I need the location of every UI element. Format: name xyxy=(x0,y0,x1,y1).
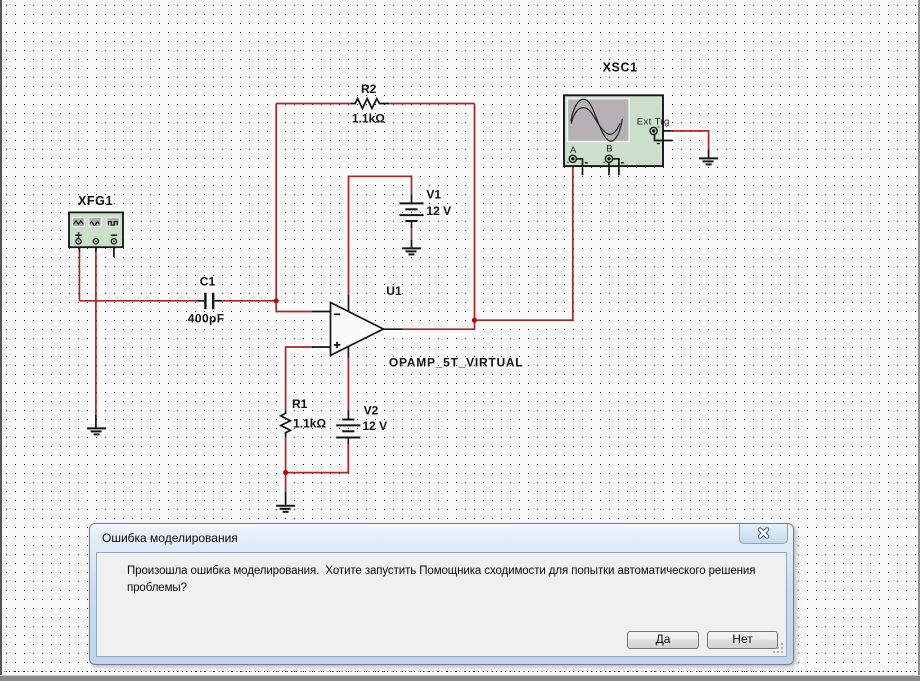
svg-text:OPAMP_5T_VIRTUAL: OPAMP_5T_VIRTUAL xyxy=(389,356,523,370)
wire R2 right segment xyxy=(389,103,475,105)
button Нет xyxy=(707,631,778,649)
label V1 value 12 V xyxy=(426,204,451,218)
ground (below V1) xyxy=(402,248,421,254)
label V2 xyxy=(364,403,379,417)
svg-text:R2: R2 xyxy=(361,82,377,96)
close button xyxy=(739,523,788,544)
label R1 xyxy=(292,397,308,411)
wire op-amp noninverting input to R1 top xyxy=(286,347,312,411)
dialog title xyxy=(102,531,238,545)
simulation error dialog xyxy=(89,523,794,665)
wire R2 right riser down to node B xyxy=(474,104,476,321)
wire R1 bottom to node C xyxy=(285,434,287,473)
svg-text:400pF: 400pF xyxy=(188,312,225,326)
capacitor C1 xyxy=(198,293,222,309)
label R2 value 1.1k ohm xyxy=(352,111,385,125)
label Ext Trg xyxy=(637,116,670,127)
dialog message text xyxy=(127,563,787,597)
svg-text:V1: V1 xyxy=(426,188,441,202)
label XSC1 xyxy=(603,61,638,75)
svg-text:1.1kΩ: 1.1kΩ xyxy=(352,111,385,125)
node A (junction at C1/R2 riser) xyxy=(274,298,279,303)
wire V1 negative to ground xyxy=(411,221,413,248)
svg-text:R1: R1 xyxy=(292,397,308,411)
battery V1 xyxy=(399,203,423,221)
svg-text:V2: V2 xyxy=(364,403,379,417)
wire oscilloscope Ext Trg to ground xyxy=(657,131,708,159)
wire node B to oscilloscope channel A xyxy=(475,162,573,320)
ground (below XFG1) xyxy=(87,428,106,434)
label A xyxy=(570,145,577,156)
wire XFG1 to C1 (horizontal) xyxy=(79,300,197,302)
svg-text:XSC1: XSC1 xyxy=(603,61,638,75)
wire junction A to R2 left (riser up) xyxy=(275,104,277,301)
wire node C to ground xyxy=(285,473,287,506)
dense grid row at sheet bottom xyxy=(0,671,920,672)
label R2 xyxy=(361,82,377,96)
ground (Ext Trg) xyxy=(699,158,718,164)
svg-text:B: B xyxy=(606,144,612,155)
svg-text:XFG1: XFG1 xyxy=(78,194,113,208)
wire op-amp output to node B xyxy=(383,320,474,329)
dialog content panel xyxy=(96,552,787,657)
resistor R1 xyxy=(281,411,291,434)
label R1 value 1.1k ohm xyxy=(293,417,326,431)
svg-text:U1: U1 xyxy=(386,284,402,298)
label U1 xyxy=(386,284,402,298)
svg-text:A: A xyxy=(570,145,577,156)
label C1 xyxy=(200,275,216,289)
window right edge xyxy=(918,0,920,680)
svg-text:12 V: 12 V xyxy=(363,419,388,433)
node B (output junction) xyxy=(472,318,477,323)
window left edge xyxy=(0,0,2,680)
svg-text:1.1kΩ: 1.1kΩ xyxy=(293,417,326,431)
wire XFG1 plus terminal to C1 (vertical drop) xyxy=(78,244,80,301)
op-amp U1 xyxy=(312,303,384,356)
label OPAMP_5T_VIRTUAL xyxy=(389,356,523,370)
wire junction A jog to op-amp inverting input xyxy=(276,301,312,312)
label B xyxy=(606,144,612,155)
svg-text:C1: C1 xyxy=(200,275,216,289)
resize grip xyxy=(771,641,785,655)
wire op-amp V+ pin to V1 xyxy=(349,176,412,311)
label XFG1 xyxy=(78,194,113,208)
battery V2 xyxy=(336,420,360,438)
label C1 value 400pF xyxy=(188,312,225,326)
wire R2 left segment xyxy=(276,103,351,105)
ground (below node C) xyxy=(276,506,295,512)
label V1 xyxy=(426,188,441,202)
oscilloscope XSC1 xyxy=(564,95,673,175)
wire C1 to junction A xyxy=(222,300,277,302)
svg-text:Ext Trg: Ext Trg xyxy=(637,116,670,127)
node C (R1/V2 junction) xyxy=(283,470,288,475)
wire V2 bottom to node C xyxy=(286,438,349,473)
button Да xyxy=(627,631,699,649)
wire XFG1 minus terminal stub xyxy=(113,244,115,258)
svg-text:12 V: 12 V xyxy=(426,204,451,218)
window bottom edge xyxy=(0,675,920,681)
function generator XFG1 xyxy=(69,212,123,247)
resistor R2 xyxy=(351,99,389,109)
wire op-amp V- pin to V2 xyxy=(347,346,349,419)
label V2 value 12 V xyxy=(363,419,388,433)
wire XFG1 common terminal to ground xyxy=(95,244,97,429)
